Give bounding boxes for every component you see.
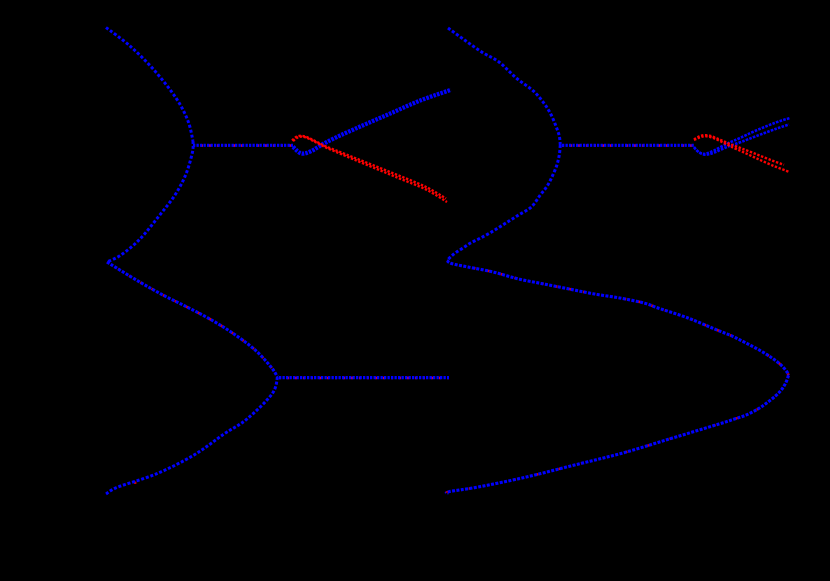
red markers under left middle branch bbox=[107, 262, 278, 377]
left snake upper arc (blue dotted) bbox=[106, 28, 193, 142]
red markers under right flat branch bbox=[562, 144, 694, 147]
red markers under left flat branch 2 bbox=[279, 377, 449, 380]
right snake upper arc (blue dotted) bbox=[448, 28, 560, 145]
right snake middle branch (blue dotted, denser) bbox=[447, 261, 789, 376]
right snake lower arc (blue dotted, denser) bbox=[446, 376, 788, 494]
left snake third arc (blue dotted, denser) bbox=[107, 262, 278, 377]
right rising branch lower line (blue dotted) bbox=[694, 125, 789, 155]
red markers under left flat branch 1 bbox=[193, 144, 293, 147]
left snake second arc (blue dotted) bbox=[107, 141, 193, 262]
right rising branch upper line (blue dotted) bbox=[694, 118, 790, 154]
right flat branch at first fold (blue dotted) bbox=[562, 144, 694, 147]
right snake second arc (blue dotted) bbox=[447, 145, 560, 261]
single red marker on left lower arc bbox=[134, 482, 136, 484]
left flat branch at first fold (blue dotted) bbox=[193, 144, 293, 147]
left rising bifurcated branch (thick blue dotted) bbox=[293, 90, 451, 154]
red markers under right lower branch bbox=[446, 376, 788, 494]
right falling branch upper line (red dotted) bbox=[694, 135, 784, 165]
red markers under right middle branch bbox=[447, 261, 789, 376]
left flat branch at third fold (blue dotted) bbox=[279, 376, 449, 379]
left snake lower arc (blue dotted) bbox=[106, 377, 278, 494]
right falling branch lower line (red dotted) bbox=[694, 136, 789, 172]
left falling branch lower line (red dotted) bbox=[293, 137, 447, 202]
left falling branch upper line (red dotted) bbox=[292, 136, 446, 199]
